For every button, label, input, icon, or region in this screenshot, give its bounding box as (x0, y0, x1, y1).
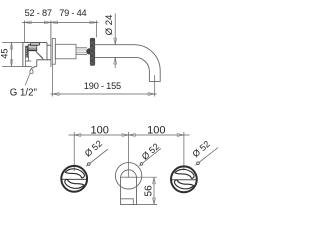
right handle upper crescent (175, 169, 194, 178)
svg-text:45: 45 (0, 48, 9, 58)
knob disc hatched (90, 38, 95, 66)
svg-text:Ø 52: Ø 52 (140, 141, 161, 161)
leader to drop (25, 74, 30, 86)
arrows at 50.9 (44, 21, 51, 24)
body cylinder (55, 44, 76, 59)
svg-text:Ø 52: Ø 52 (191, 139, 212, 159)
right handle mid line (172, 179, 198, 181)
drop notch in box bottom (32, 66, 35, 68)
svg-text:79 - 44: 79 - 44 (59, 8, 86, 18)
spout tube front view (121, 177, 137, 204)
escutcheon plate (52, 39, 55, 65)
190-155 dimension (52, 65, 154, 97)
right handle circle (171, 166, 197, 192)
dimension line 100/100 (69, 134, 190, 136)
svg-text:Ø 24: Ø 24 (104, 14, 115, 35)
dimension line top (52-87 / 79-44) (22, 21, 98, 24)
svg-text:100: 100 (91, 125, 109, 137)
svg-text:Ø 52: Ø 52 (83, 138, 104, 158)
svg-text:G 1/2": G 1/2" (10, 88, 38, 99)
extension line x=24.5 (24, 20, 26, 42)
diameter 24 dimension (114, 13, 116, 68)
wall line (50, 20, 52, 67)
water drop (30, 68, 33, 73)
56 dimension (137, 177, 158, 204)
left handle circle (61, 166, 87, 192)
svg-text:52 - 87: 52 - 87 (25, 8, 52, 18)
right handle lower crescent (174, 180, 193, 189)
cartridge cap pill (31, 43, 40, 46)
middle escutcheon circle (115, 163, 141, 189)
left handle mid line (62, 178, 88, 180)
funnel / slanted channel (25, 50, 43, 67)
cartridge block hatched (28, 45, 37, 51)
extension line x=96.5 (96, 20, 98, 37)
svg-text:56: 56 (144, 185, 155, 197)
arrow right tip at 96.5 (90, 21, 97, 24)
stem lines (76, 48, 87, 55)
spout tube arc (121, 170, 137, 178)
extension verticals (74, 132, 184, 177)
left handle upper crescent (65, 169, 84, 178)
arrow left tip at 24.5 (25, 21, 32, 24)
left handle lower crescent (65, 179, 84, 188)
svg-text:190 - 155: 190 - 155 (84, 81, 121, 91)
neck through wall (47, 45, 51, 60)
hub (86, 48, 92, 54)
valve body box behind wall (L-shape) (23, 43, 47, 67)
cartridge hatched vertical strip (26, 46, 28, 57)
svg-text:100: 100 (147, 125, 165, 137)
45 dimension (2, 42, 47, 66)
spout (95, 45, 160, 82)
